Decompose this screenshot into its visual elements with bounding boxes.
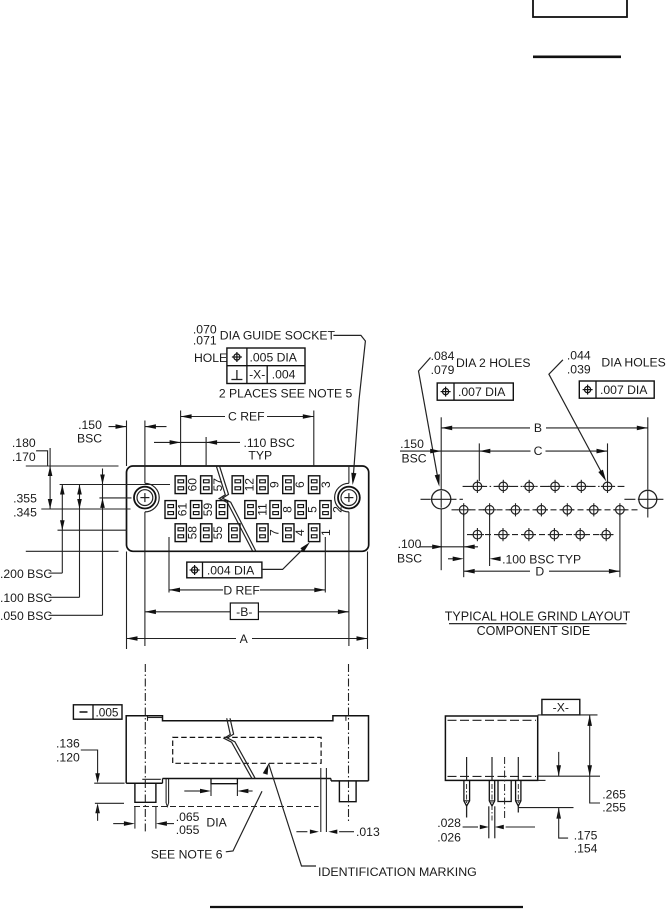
svg-text:.175: .175 [574,829,598,843]
right mounting pin [339,781,356,802]
left pin centerline [144,664,146,831]
dimension -B- [145,552,349,647]
front view contact 58 [175,524,200,542]
hole middle row 2 [483,503,496,516]
right pin centerline [348,664,350,821]
label IDENTIFICATION MARKING with leader [263,764,477,880]
dimension C and .150 BSC [400,437,608,481]
datum flag -X- [538,699,598,715]
svg-text:.044: .044 [567,348,591,362]
dimension .028/.026 [437,816,535,844]
svg-text:DIA GUIDE SOCKET: DIA GUIDE SOCKET [220,329,336,343]
dimension .013 [296,825,380,839]
svg-text:.100: .100 [398,537,422,551]
svg-text:IDENTIFICATION MARKING: IDENTIFICATION MARKING [318,865,477,879]
svg-text:A: A [240,632,249,646]
front view contact 2 [320,501,345,519]
pin A [464,757,470,818]
svg-text:.005 DIA: .005 DIA [250,351,298,365]
svg-text:.170: .170 [12,450,36,464]
hole row line bottom [467,534,614,536]
svg-text:.150: .150 [400,437,424,451]
hole middle row 7 [613,503,626,516]
leader to contact 1 [262,542,310,569]
svg-text:SEE NOTE 6: SEE NOTE 6 [151,848,223,862]
svg-text:2: 2 [330,506,344,513]
dimension D [464,515,620,579]
svg-text:61: 61 [176,503,190,517]
label .084/.079 DIA 2 HOLES [431,349,531,377]
svg-text:-X-: -X- [249,368,265,382]
dimension .355/.345 [13,448,52,520]
svg-text:11: 11 [255,503,269,516]
front view connector body [127,466,369,551]
side view flatness frame -| .005 [73,705,122,720]
svg-text:.255: .255 [602,800,626,814]
dimension key width [184,784,252,796]
front view contact 7 [257,524,282,542]
dimension B [441,417,648,489]
svg-text:60: 60 [186,478,200,492]
svg-text:2 PLACES SEE NOTE 5: 2 PLACES SEE NOTE 5 [219,386,353,400]
dimension .175/.154 [556,752,597,856]
feature control frame .005 DIA / -X- .004 [227,348,305,384]
hole row line top [463,485,625,487]
svg-text:.005: .005 [96,705,119,719]
svg-text:.355: .355 [13,492,37,506]
svg-text:.345: .345 [13,506,37,520]
svg-text:.120: .120 [56,750,80,764]
side view break line [224,718,255,778]
svg-text:.013: .013 [356,825,380,839]
hole bottom row 2 [496,528,509,541]
dimension .100 BSC left [397,537,478,565]
svg-text:.007 DIA: .007 DIA [600,383,648,397]
svg-text:.007 DIA: .007 DIA [458,385,506,399]
label SEE NOTE 6 with leader [151,791,262,861]
svg-text:BSC: BSC [77,432,102,446]
svg-text:-X-: -X- [553,700,569,714]
front view contact unlabeled [229,524,240,542]
feature control frame .004 DIA [187,562,262,578]
svg-text:.200 BSC: .200 BSC [0,567,52,581]
front view contact 61 [165,501,190,519]
svg-text:.050 BSC: .050 BSC [0,609,52,623]
hole top row 5 [575,480,588,493]
document header underline [533,55,621,58]
svg-text:.265: .265 [602,787,626,801]
label HOLE [194,351,227,365]
hole middle row 3 [509,503,522,516]
right terminal pin [321,768,327,832]
svg-text:C REF: C REF [228,410,265,424]
hole middle row 1 [457,503,470,516]
left extension lines [26,466,170,551]
svg-text:COMPONENT SIDE: COMPONENT SIDE [477,624,591,638]
front view contact 59 [191,501,216,519]
svg-text:55: 55 [211,526,225,540]
svg-text:.154: .154 [574,842,598,856]
extension lines above body [127,411,314,467]
feature control frame right .007 DIA [579,381,654,398]
dimension .110 BSC TYP [154,436,295,463]
dimension A [127,552,368,650]
front view right guide socket [335,466,360,551]
hole middle row 4 [535,503,548,516]
front view contact unlabeled [216,501,227,519]
front view contact 60 [175,476,200,494]
hole top row 2 [497,480,510,493]
hole row line middle [452,509,639,511]
svg-text:3: 3 [319,481,333,488]
leader to right top hole [549,360,606,482]
svg-text:8: 8 [280,506,294,513]
hole middle row 5 [561,503,574,516]
label .044/.039 DIA HOLES [567,348,666,376]
svg-text:.039: .039 [567,362,591,376]
leader to left guide hole [419,358,440,487]
svg-text:4: 4 [293,529,307,536]
svg-text:.079: .079 [431,363,455,377]
dimension C REF [181,410,314,424]
svg-text:BSC: BSC [401,452,426,466]
svg-text:BSC: BSC [397,551,422,565]
svg-text:B: B [534,421,542,435]
front view left guide socket [134,466,159,551]
hole bottom row 3 [522,528,535,541]
svg-text:.026: .026 [437,830,461,844]
svg-text:DIA HOLES: DIA HOLES [601,356,665,370]
front view contact 9 [257,476,282,494]
front view contact 4 [283,524,308,542]
hole bottom row 4 [548,528,561,541]
svg-text:9: 9 [267,481,281,488]
front view break line [216,466,255,551]
svg-text:.150: .150 [78,418,102,432]
svg-text:DIA 2 HOLES: DIA 2 HOLES [456,356,531,370]
svg-text:.028: .028 [437,816,461,830]
dimension .065/.055 DIA [113,806,227,836]
dimension .200 BSC [0,485,65,581]
dimension .136/.120 [56,736,125,821]
label 2 PLACES SEE NOTE 5 [219,386,353,400]
svg-text:.100 BSC: .100 BSC [0,591,52,605]
pin B [489,757,495,838]
hole top row 3 [523,480,536,493]
svg-text:D REF: D REF [223,583,260,597]
front view contact 55 [201,524,226,542]
left terminal pin [166,779,169,807]
svg-text:.055: .055 [176,823,200,837]
document header box [533,0,627,17]
front view contact 5 [295,501,320,519]
pin D [516,757,521,813]
hole bottom row 1 [471,528,484,541]
hole middle row 6 [587,503,600,516]
svg-text:HOLE: HOLE [194,351,227,365]
hole bottom row 5 [574,528,587,541]
pin tip dashed line [134,806,319,808]
dimension .100 BSC [0,485,82,606]
svg-text:.004 DIA: .004 DIA [207,563,255,577]
svg-text:6: 6 [293,481,307,488]
hole layout left guide hole [421,490,463,571]
svg-text:TYP: TYP [248,448,272,462]
dimension .050 BSC [0,469,105,624]
pin C block [498,757,511,819]
svg-text:C: C [534,444,543,458]
svg-text:.180: .180 [12,436,36,450]
hole top row 6 [601,480,614,493]
svg-text:.136: .136 [56,736,80,750]
svg-text:.084: .084 [431,349,455,363]
dimension .100 BSC TYP [448,515,581,578]
feature control frame left .007 DIA [437,383,513,400]
front view contact 8 [270,501,295,519]
svg-text:58: 58 [186,526,200,540]
svg-text:12: 12 [243,478,257,492]
leader to right guide socket [333,335,365,485]
left mounting pin [135,783,156,802]
dimension .150 BSC [77,418,167,445]
front view contact 57 [201,476,226,494]
front view contact 6 [283,476,308,494]
hole bottom row 6 [600,528,613,541]
svg-text:7: 7 [267,529,281,536]
front view contact 1 [309,524,334,542]
svg-text:.071: .071 [193,334,217,348]
hole layout right guide hole [624,490,664,517]
front view contact 12 [232,476,257,494]
svg-text:5: 5 [306,506,320,513]
pin tip extension line [518,807,573,809]
identification marking area (dashed) [173,737,321,763]
label .180/.170 with leader [12,436,48,466]
hole top row 4 [549,480,562,493]
dimension .265/.255 [587,715,626,814]
hole top row 1 [471,480,484,493]
svg-text:1: 1 [319,529,333,536]
svg-text:-B-: -B- [236,605,252,619]
front view contact 11 [245,501,269,519]
svg-text:.004: .004 [272,368,296,382]
front view contact 3 [309,476,334,494]
dimension D REF [169,537,325,597]
label .070/.071 DIA GUIDE SOCKET [193,323,336,348]
svg-text:DIA: DIA [206,816,227,830]
side view body outline [126,716,368,784]
page footer line [210,906,523,908]
end view body [445,716,600,780]
svg-text:59: 59 [201,503,215,517]
title TYPICAL HOLE GRIND LAYOUT [445,610,631,638]
center polarizing key [211,779,237,784]
svg-text:TYPICAL HOLE GRIND LAYOUT: TYPICAL HOLE GRIND LAYOUT [445,610,631,624]
svg-text:D: D [535,565,544,579]
